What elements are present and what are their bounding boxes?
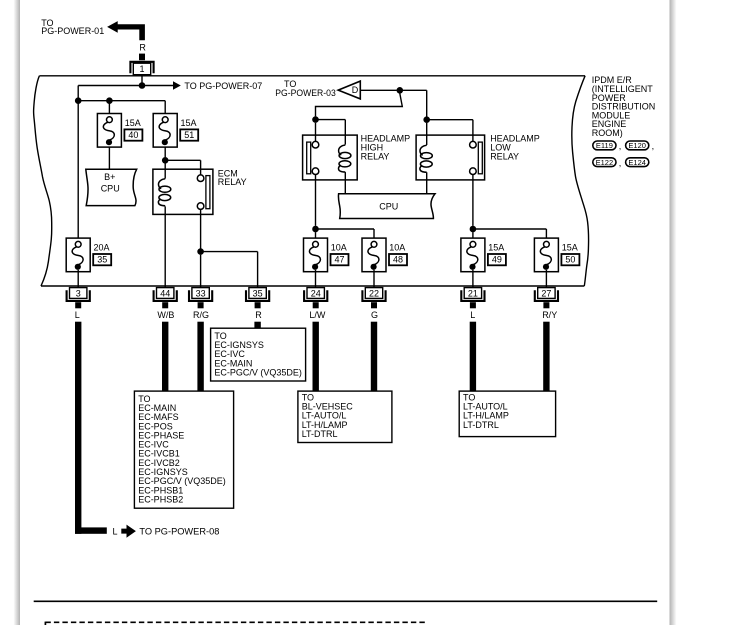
fuse F51 15A [153,114,177,148]
separator rule [34,600,658,602]
svg-text:R: R [255,310,262,320]
destination box TO EC-MAIN etc [134,391,233,508]
svg-text:E122: E122 [596,158,614,167]
thick wire elbow to PG-POWER-08 [75,527,107,533]
wire low contact down [472,175,474,226]
svg-text:CPU: CPU [379,202,398,212]
svg-text:10A: 10A [389,243,405,253]
svg-text:PG-POWER-03: PG-POWER-03 [275,88,336,98]
svg-text:E124: E124 [628,158,646,167]
headlamp high relay box U1 [303,135,358,180]
svg-text:15A: 15A [562,243,578,253]
CPU block [338,194,435,219]
svg-text:EC-PGC/V (VQ35DE): EC-PGC/V (VQ35DE) [214,367,302,377]
thick wire L from terminal 3 [75,322,81,534]
svg-text:35: 35 [97,255,107,265]
fuse number 40 [124,129,142,140]
svg-text:EC-PHSB2: EC-PHSB2 [138,494,183,504]
svg-text:33: 33 [196,288,206,298]
svg-text:44: 44 [160,288,170,298]
wire ECM contact down [200,209,202,248]
wire to fuse 51 [164,101,166,117]
wire long drop to fuse 35 [77,101,79,242]
wire fuse 48 to terminal 22 [373,270,375,288]
svg-text:24: 24 [311,288,321,298]
svg-text:PG-POWER-01: PG-POWER-01 [41,26,104,36]
svg-text:49: 49 [492,255,502,265]
fuse number 48 [389,254,407,265]
svg-text:,: , [619,141,622,151]
connector oval E122 [593,158,616,167]
wire corner down [426,90,428,116]
svg-text:R/Y: R/Y [542,310,557,320]
wire down to contact [472,120,474,142]
svg-text:22: 22 [369,288,379,298]
ECM relay coil [158,179,170,206]
svg-text:10A: 10A [331,243,347,253]
svg-text:47: 47 [334,255,344,265]
connector terminal 35 [246,288,269,309]
svg-text:L: L [75,310,80,320]
fuse number 51 [180,129,198,140]
svg-text:20A: 20A [94,243,110,253]
thick wire R/Y from terminal 27 [543,322,549,392]
svg-text:3: 3 [76,288,81,298]
thick wire L/W from terminal 24 [313,322,319,392]
triangle connector D to PG-POWER-03 [338,81,360,99]
connector oval E119 [593,141,616,150]
wire fuse 35 to terminal 3 [77,270,79,288]
wire fuse 51 to junction [164,146,166,157]
junction [197,248,204,255]
fuse F50 15A [534,238,558,272]
svg-text:G: G [371,310,378,320]
junction [470,226,477,233]
high relay contact [307,141,319,174]
thick wire L from terminal 21 [470,322,476,392]
fuse number 47 [331,254,349,265]
svg-text:RELAY: RELAY [218,177,247,187]
connector terminal 22 [362,288,385,309]
wire into fuse 47 [315,232,317,241]
connector terminal 24 [304,288,327,309]
fuse F48 10A [362,238,386,272]
fuse number 49 [488,254,506,265]
wire into ECM coil [164,163,166,178]
svg-text:RELAY: RELAY [490,152,519,162]
svg-text:RELAY: RELAY [361,152,390,162]
svg-text:27: 27 [541,288,551,298]
svg-text:51: 51 [184,130,194,140]
wire to fuse 40 [108,101,110,117]
wire branch to fuse 48 [316,228,375,230]
junction [312,226,319,233]
wire to low relay contact [427,119,473,121]
svg-text:L: L [113,527,118,537]
destination box TO BL-VEHSEC etc [298,391,392,442]
fuse F47 10A [304,238,328,272]
svg-text:,: , [652,141,655,151]
wire diagonal jog [316,93,403,116]
fuse F49 15A [461,238,485,272]
wire into fuse 48 [373,229,375,241]
wire branch to fuse 50 [473,228,547,230]
wire feed to fuses 40/51 [78,100,165,102]
connector terminal 44 [154,288,177,309]
connector terminal 1 [130,54,153,75]
ECM relay contact [197,175,210,210]
wire down to contact [200,160,202,175]
svg-text:48: 48 [393,255,403,265]
wire fuse 47 to terminal 24 [315,270,317,288]
svg-text:15A: 15A [488,243,504,253]
wire down to terminal 35 [257,252,259,288]
svg-text:,: , [619,158,622,168]
svg-text:40: 40 [128,130,138,140]
fuse number 50 [561,254,579,265]
wire corner down [77,86,79,101]
junction [162,157,169,164]
high relay coil [338,145,350,172]
wire fuse 40 to B+ CPU [108,146,110,169]
wire into fuse 49 [472,232,474,241]
svg-text:D: D [352,85,359,95]
svg-text:ROOM): ROOM) [592,128,623,138]
connector terminal 33 [189,288,212,309]
svg-text:L/W: L/W [309,310,326,320]
wire to high relay contact [315,123,317,142]
svg-text:1: 1 [139,64,144,74]
thick arrow to PG-POWER-08 [121,525,136,538]
wire from D [361,89,397,91]
thick arrow to PG-POWER-01 [107,21,145,40]
destination box TO LT-AUTO/L etc [459,391,555,437]
destination box TO EC-IGNSYS/EC-IVC/EC-MAIN/EC-PGC [211,328,306,381]
wire to low relay branch [400,89,427,91]
wire ECM coil to terminal 44 [164,206,166,287]
wire down to terminal 33 [200,255,202,288]
wire into coil [344,120,346,145]
svg-text:E120: E120 [628,141,646,150]
connector terminal 3 [67,288,90,309]
wire to ECM contact [165,159,200,161]
low relay contact [470,141,483,174]
svg-text:R: R [139,42,146,52]
wire to high relay coil [316,119,346,121]
svg-text:R/G: R/G [193,310,209,320]
wire into low relay coil [426,123,428,145]
svg-text:LT-DTRL: LT-DTRL [302,429,338,439]
arrowhead to PG-POWER-07 [173,81,181,89]
wire bus to PG-POWER-07 [78,85,173,87]
junction [423,116,430,123]
svg-text:35: 35 [253,288,263,298]
connector terminal 27 [535,288,558,309]
svg-text:B+: B+ [104,172,115,182]
svg-text:CPU: CPU [101,183,120,193]
connector terminal 21 [461,288,484,309]
wire into fuse 50 [545,229,547,241]
fuse F35 20A [66,238,90,272]
wire low coil to CPU [426,172,428,194]
wire fuse 50 to terminal 27 [545,270,547,288]
low relay coil [420,145,432,172]
svg-text:15A: 15A [125,118,141,128]
svg-text:E119: E119 [596,141,613,150]
wire high coil to CPU [344,172,346,194]
junction [397,87,404,94]
svg-text:50: 50 [565,255,575,265]
svg-text:LT-DTRL: LT-DTRL [463,420,499,430]
junction [312,116,319,123]
svg-text:21: 21 [468,288,478,298]
thick wire R from terminal 35 [254,322,260,329]
B+ CPU block [86,169,137,205]
wire fuse 49 to terminal 21 [472,270,474,288]
fuse number 35 [93,254,111,265]
wire high contact down [315,175,317,226]
svg-text:W/B: W/B [157,310,174,320]
connector oval E120 [626,141,649,150]
thick wire G from terminal 22 [371,322,377,392]
dashed divider [45,622,427,625]
wire branch to terminal 35 [201,251,258,253]
svg-text:L: L [470,310,475,320]
headlamp low relay box U2 [416,135,485,180]
junction [139,82,146,89]
svg-text:TO PG-POWER-08: TO PG-POWER-08 [139,527,219,537]
thick wire R/G from terminal 33 [197,322,203,392]
connector oval E124 [626,158,649,167]
ECM relay box U3 [153,169,213,214]
IPDM E/R enclosure box (torn edges) [34,76,589,286]
svg-text:15A: 15A [181,118,197,128]
wire from connector 1 down [141,75,143,86]
junction [75,97,82,104]
svg-text:TO PG-POWER-07: TO PG-POWER-07 [184,81,262,91]
thick wire W/B from terminal 44 [162,322,168,392]
junction [106,97,113,104]
fuse F40 15A [97,114,121,148]
